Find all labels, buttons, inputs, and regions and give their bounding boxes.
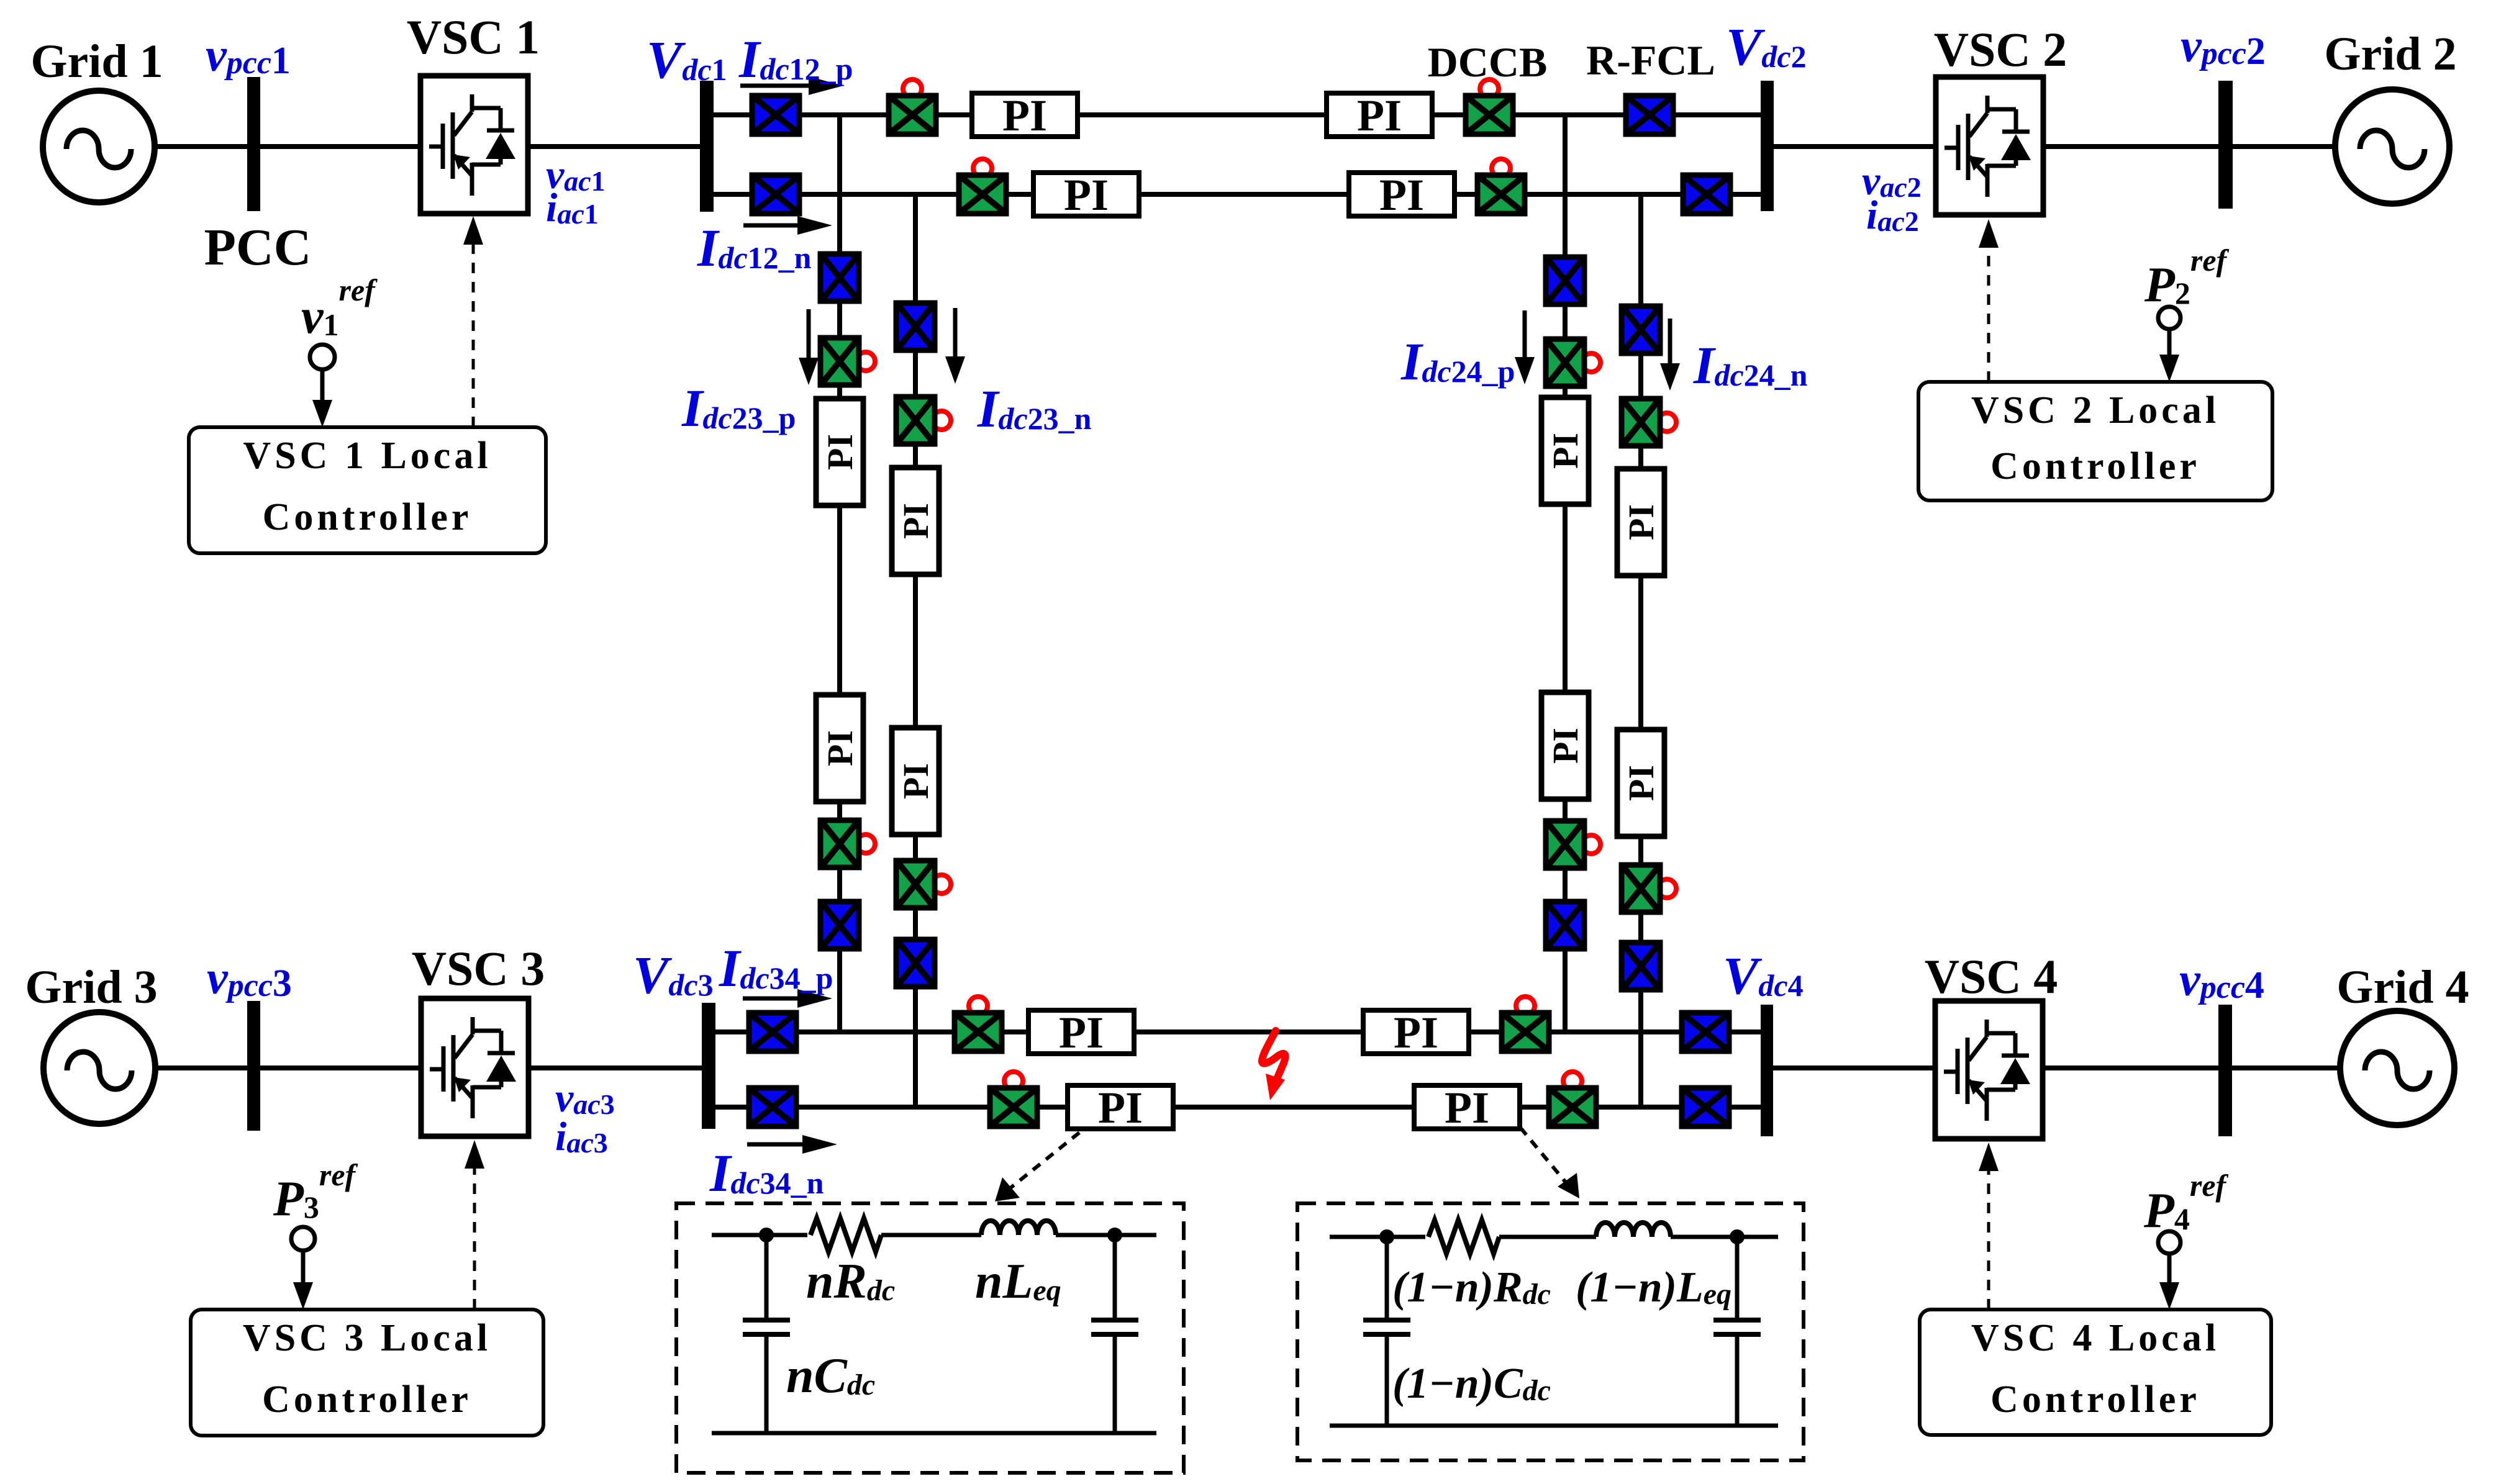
VSC 3 converter <box>421 998 529 1136</box>
node left equivalent right <box>1107 1228 1122 1242</box>
svg-text:Grid 4: Grid 4 <box>2336 961 2469 1013</box>
svg-text:Grid 2: Grid 2 <box>2324 28 2456 80</box>
wire PCC1 to VSC1 <box>260 144 420 149</box>
inductor nLeq <box>981 1221 1056 1235</box>
wire VSC3 to Vdc3 bus <box>529 1065 709 1070</box>
bus Vdc4 <box>1761 1005 1773 1136</box>
dashed control signal controller1 to VSC1 <box>463 216 483 427</box>
svg-text:nCdc: nCdc <box>786 1349 875 1403</box>
AC source Grid 2 <box>2335 89 2449 204</box>
dashed pi-equivalent box right <box>1297 1203 1804 1460</box>
svg-text:vpcc4: vpcc4 <box>2179 954 2264 1007</box>
R-FCL breaker line24 positive bottom <box>1546 902 1584 949</box>
svg-text:R-FCL: R-FCL <box>1586 37 1715 84</box>
svg-text:iac3: iac3 <box>555 1114 608 1159</box>
svg-text:VSC 4: VSC 4 <box>1925 949 2058 1003</box>
DCCB line34 positive at bus4 <box>1502 997 1549 1051</box>
wire VSC2 to PCC2 <box>2043 144 2218 149</box>
svg-text:Idc24_p: Idc24_p <box>1400 332 1515 391</box>
dashed control signal controller2 to VSC2 <box>1979 219 1999 382</box>
svg-text:vpcc2: vpcc2 <box>2181 20 2266 73</box>
wire Vdc2 bus to VSC2 <box>1767 144 1936 149</box>
R-FCL breaker line24 negative top <box>1622 306 1660 353</box>
wire VSC1 to Vdc1 bus <box>528 144 707 149</box>
wire PCC3 to VSC3 <box>260 1065 421 1070</box>
wire VSC4 to PCC4 <box>2043 1065 2218 1070</box>
VSC 1 converter <box>420 76 528 214</box>
DCCB line24 positive bottom <box>1546 821 1600 868</box>
R-FCL breaker line24 negative bottom <box>1622 943 1660 990</box>
arrow Idc23_n <box>945 308 965 384</box>
wire PCC2 to Grid2 <box>2232 144 2338 149</box>
capacitor right equivalent right leg <box>1713 1237 1761 1426</box>
bus Vdc1 <box>700 81 714 212</box>
R-FCL breaker line12 negative at bus2 <box>1683 175 1730 214</box>
svg-text:Vdc4: Vdc4 <box>1723 946 1804 1005</box>
svg-text:(1−n)Rdc: (1−n)Rdc <box>1392 1264 1551 1311</box>
wire left equivalent top right <box>1056 1233 1156 1237</box>
svg-text:VSC 1: VSC 1 <box>407 10 540 64</box>
R-FCL breaker line12 positive at bus1 <box>752 96 799 134</box>
PI section line23 positive upper <box>816 399 863 505</box>
wire PCC4 to Grid4 <box>2232 1065 2341 1070</box>
wire Vdc4 bus to VSC4 <box>1767 1065 1935 1070</box>
arrow Idc24_p <box>1515 310 1535 384</box>
wire dc line 12 negative pole <box>714 192 1761 197</box>
resistor (1-n)Rdc <box>1428 1220 1499 1254</box>
svg-text:Controller: Controller <box>263 496 473 538</box>
DCCB line24 negative top <box>1622 399 1676 446</box>
node left equivalent left <box>759 1228 774 1242</box>
PI section line12 negative left <box>1033 170 1139 220</box>
svg-text:VSC 2: VSC 2 <box>1934 22 2067 76</box>
DCCB line12 positive at bus1 <box>889 79 936 134</box>
VSC 4 local controller box <box>1920 1310 2271 1435</box>
R-FCL breaker line34 positive at bus4 <box>1682 1013 1729 1051</box>
wire left equivalent bottom <box>712 1431 1156 1436</box>
PI section line34 positive left <box>1028 1008 1134 1057</box>
PI section line24 positive upper <box>1541 397 1589 504</box>
VSC 2 local controller box <box>1918 382 2272 500</box>
PI section line34 negative right <box>1414 1083 1520 1133</box>
svg-text:VSC 1 Local: VSC 1 Local <box>243 435 491 477</box>
R-FCL breaker line23 negative bottom <box>896 939 935 987</box>
VSC 4 converter <box>1935 1001 2043 1139</box>
VSC 2 converter <box>1936 77 2043 215</box>
svg-text:Vdc1: Vdc1 <box>647 30 727 89</box>
svg-text:Idc24_n: Idc24_n <box>1693 335 1808 395</box>
R-FCL breaker line12 positive at bus2 <box>1626 96 1673 134</box>
R-FCL breaker line34 negative at bus4 <box>1682 1088 1729 1126</box>
reference input P2ref node <box>2158 307 2181 382</box>
bus PCC2 <box>2218 81 2233 209</box>
wire right equivalent top right <box>1671 1235 1778 1239</box>
svg-text:Controller: Controller <box>1990 1378 2200 1421</box>
svg-text:VSC 3 Local: VSC 3 Local <box>243 1317 491 1359</box>
DCCB line12 negative at bus2 <box>1477 159 1525 214</box>
reference input P4ref node <box>2158 1231 2181 1310</box>
DCCB line34 negative at bus3 <box>990 1072 1037 1126</box>
reference input P3ref node <box>291 1227 315 1310</box>
wire dc line 12 positive pole <box>714 112 1761 117</box>
VSC 1 local controller box <box>189 427 546 553</box>
R-FCL breaker line23 negative top <box>896 303 935 350</box>
svg-text:Idc23_n: Idc23_n <box>977 379 1092 438</box>
svg-text:VSC 3: VSC 3 <box>412 941 545 995</box>
svg-text:P3ref: P3ref <box>273 1157 358 1226</box>
arrow Idc24_n <box>1660 319 1680 391</box>
svg-text:VSC 4 Local: VSC 4 Local <box>1971 1317 2220 1359</box>
arrow Idc23_p <box>799 309 819 385</box>
svg-text:PCC: PCC <box>204 219 312 276</box>
svg-text:Idc12_p: Idc12_p <box>738 29 853 89</box>
node right equivalent right <box>1730 1229 1745 1244</box>
svg-text:Grid 3: Grid 3 <box>25 961 157 1013</box>
bus PCC1 <box>247 77 260 211</box>
svg-text:Controller: Controller <box>262 1378 472 1421</box>
svg-text:(1−n)Leq: (1−n)Leq <box>1576 1264 1731 1311</box>
svg-text:Controller: Controller <box>1990 445 2200 487</box>
svg-text:(1−n)Cdc: (1−n)Cdc <box>1392 1360 1551 1408</box>
DCCB line12 positive at bus2 <box>1466 79 1513 134</box>
R-FCL breaker line24 positive top <box>1546 257 1584 304</box>
DCCB line24 positive top <box>1546 339 1600 386</box>
arrow Idc34_p <box>743 989 832 1008</box>
DCCB line24 negative bottom <box>1622 865 1676 912</box>
PI section line24 positive lower <box>1541 692 1589 799</box>
PI section line24 negative lower <box>1617 730 1664 836</box>
DCCB line12 negative at bus1 <box>959 159 1006 214</box>
DCCB line23 positive top <box>820 338 875 385</box>
node right equivalent left <box>1379 1229 1394 1244</box>
wire dc line 23 positive pole <box>837 115 842 1032</box>
R-FCL breaker line12 negative at bus1 <box>752 175 799 214</box>
svg-text:nRdc: nRdc <box>806 1254 895 1309</box>
reference input v1ref node <box>310 345 335 427</box>
PI section line24 negative upper <box>1617 469 1664 576</box>
arrow Idc12_n <box>743 216 832 235</box>
dashed pointer arrow to right equivalent box <box>1520 1128 1579 1198</box>
bus PCC3 <box>247 1001 260 1131</box>
svg-text:vpcc1: vpcc1 <box>206 29 291 82</box>
PI section line23 positive lower <box>816 695 863 802</box>
svg-text:Idc34_p: Idc34_p <box>719 938 833 998</box>
R-FCL breaker line23 positive bottom <box>820 902 859 949</box>
R-FCL breaker line34 positive at bus3 <box>749 1013 796 1051</box>
wire dc line 24 negative pole <box>1638 194 1643 1107</box>
VSC 3 local controller box <box>191 1310 543 1436</box>
bus Vdc2 <box>1761 81 1774 211</box>
svg-text:v1ref: v1ref <box>301 273 378 344</box>
arrow Idc34_n <box>747 1135 837 1154</box>
PI section line34 positive right <box>1363 1008 1469 1057</box>
arrow Idc12_p <box>740 76 843 95</box>
dashed control signal controller4 to VSC4 <box>1979 1142 1999 1310</box>
resistor nRdc <box>810 1218 881 1252</box>
DCCB line23 positive bottom <box>820 820 875 867</box>
fault symbol on line 34 <box>1262 1031 1286 1100</box>
wire right equivalent top middle <box>1499 1235 1596 1239</box>
bus Vdc3 <box>702 1003 715 1129</box>
svg-text:P4ref: P4ref <box>2143 1168 2229 1238</box>
wire right equivalent bottom <box>1330 1424 1778 1428</box>
bus PCC4 <box>2218 1005 2232 1136</box>
DCCB line23 negative bottom <box>896 861 951 908</box>
PI section line12 positive left <box>972 91 1078 140</box>
svg-text:vpcc3: vpcc3 <box>207 952 292 1005</box>
svg-text:VSC 2 Local: VSC 2 Local <box>1971 389 2220 432</box>
R-FCL breaker line23 positive top <box>820 254 859 301</box>
PI section line34 negative left <box>1068 1083 1173 1133</box>
wire left equivalent top middle <box>881 1233 981 1237</box>
svg-text:Vdc2: Vdc2 <box>1726 17 1807 76</box>
inductor (1-n)Leq <box>1596 1223 1671 1237</box>
dashed pointer arrow to left equivalent box <box>995 1133 1079 1201</box>
svg-text:DCCB: DCCB <box>1428 38 1548 86</box>
wire dc line 23 negative pole <box>913 194 918 1107</box>
PI section line23 negative upper <box>892 468 939 574</box>
capacitor nCdc <box>743 1235 790 1433</box>
PI section line12 positive right <box>1327 91 1432 140</box>
AC source Grid 1 <box>43 91 155 202</box>
svg-text:P2ref: P2ref <box>2144 243 2230 312</box>
dashed pi-equivalent box left <box>676 1203 1184 1473</box>
AC source Grid 3 <box>43 1012 155 1124</box>
svg-text:Vdc3: Vdc3 <box>633 945 714 1005</box>
wire Grid1 to PCC1 <box>152 144 247 149</box>
R-FCL breaker line34 negative at bus3 <box>749 1088 796 1126</box>
svg-text:nLeq: nLeq <box>975 1254 1061 1309</box>
wire dc line 24 positive pole <box>1563 115 1568 1032</box>
wire left equivalent top left <box>712 1233 807 1237</box>
wire dc line 34 positive pole <box>715 1029 1761 1034</box>
PI section line12 negative right <box>1349 170 1454 220</box>
AC source Grid 4 <box>2340 1011 2454 1125</box>
capacitor (1-n)Cdc <box>1363 1237 1410 1426</box>
DCCB line34 positive at bus3 <box>955 997 1002 1051</box>
DCCB line34 negative at bus4 <box>1549 1072 1596 1126</box>
PI section line23 negative lower <box>892 728 939 835</box>
wire dc line 34 negative pole <box>715 1105 1761 1110</box>
dashed control signal controller3 to VSC3 <box>465 1140 484 1310</box>
wire Grid3 to PCC3 <box>153 1065 247 1070</box>
wire right equivalent top left <box>1330 1235 1425 1239</box>
DCCB line23 negative top <box>896 397 951 444</box>
svg-text:Idc23_p: Idc23_p <box>681 378 796 438</box>
capacitor left equivalent right leg <box>1091 1235 1138 1433</box>
svg-text:Grid 1: Grid 1 <box>30 35 163 88</box>
